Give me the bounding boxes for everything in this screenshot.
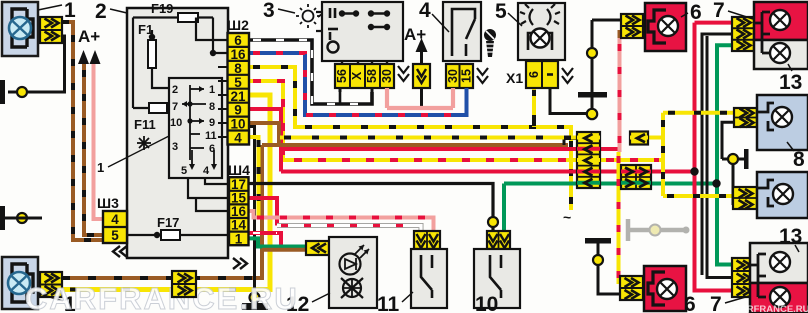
svg-text:Ш3: Ш3 xyxy=(97,195,119,211)
svg-text:15: 15 xyxy=(460,69,474,83)
svg-text:7: 7 xyxy=(713,0,725,22)
svg-text:A+: A+ xyxy=(404,25,426,44)
svg-text:CARFRANCE.RU: CARFRANCE.RU xyxy=(25,281,299,313)
svg-text:13: 13 xyxy=(779,225,802,248)
svg-text:56: 56 xyxy=(335,69,349,83)
svg-text:10: 10 xyxy=(230,117,245,132)
svg-text:4: 4 xyxy=(111,212,119,227)
svg-text:X1: X1 xyxy=(506,70,523,86)
svg-text:6: 6 xyxy=(234,33,242,48)
svg-text:6: 6 xyxy=(209,143,215,155)
svg-text:5: 5 xyxy=(111,228,119,243)
svg-text:5: 5 xyxy=(181,165,187,177)
svg-text:8: 8 xyxy=(234,61,242,76)
svg-text:1: 1 xyxy=(64,0,76,22)
svg-text:1: 1 xyxy=(209,84,215,96)
svg-text:8: 8 xyxy=(209,101,215,113)
svg-text:X: X xyxy=(350,71,364,80)
svg-text:2: 2 xyxy=(172,84,178,96)
svg-text:F17: F17 xyxy=(157,215,179,230)
svg-text:10: 10 xyxy=(170,117,182,129)
svg-text:Ш2: Ш2 xyxy=(227,17,249,33)
svg-text:14: 14 xyxy=(231,218,247,233)
svg-text:9: 9 xyxy=(209,117,215,129)
svg-text:F19: F19 xyxy=(151,1,173,16)
svg-text:CARFRANCE.RU: CARFRANCE.RU xyxy=(733,304,808,313)
svg-text:4: 4 xyxy=(419,0,431,22)
svg-text:3: 3 xyxy=(263,0,275,22)
svg-text:F1: F1 xyxy=(138,22,153,37)
svg-text:5: 5 xyxy=(234,75,242,90)
svg-text:30: 30 xyxy=(446,69,460,83)
svg-text:10: 10 xyxy=(475,293,498,313)
svg-text:~: ~ xyxy=(563,209,571,225)
svg-text:16: 16 xyxy=(230,47,246,62)
svg-text:7: 7 xyxy=(710,293,722,313)
svg-text:8: 8 xyxy=(793,148,805,171)
svg-text:11: 11 xyxy=(205,130,217,142)
svg-text:30: 30 xyxy=(380,69,394,83)
svg-text:11: 11 xyxy=(377,293,400,313)
svg-text:58: 58 xyxy=(365,69,379,83)
svg-text:9: 9 xyxy=(234,103,242,118)
svg-text:1: 1 xyxy=(235,232,243,247)
svg-text:Ш4: Ш4 xyxy=(228,162,250,178)
svg-text:5: 5 xyxy=(495,0,507,23)
svg-text:2: 2 xyxy=(95,0,107,23)
svg-text:4: 4 xyxy=(234,131,242,146)
svg-text:3: 3 xyxy=(172,141,178,153)
svg-text:7: 7 xyxy=(172,101,178,113)
svg-text:4: 4 xyxy=(203,165,210,177)
svg-text:6: 6 xyxy=(527,71,541,78)
svg-text:13: 13 xyxy=(779,71,802,94)
svg-text:A+: A+ xyxy=(78,27,100,46)
svg-text:1: 1 xyxy=(97,160,104,175)
svg-text:F11: F11 xyxy=(134,117,156,132)
svg-text:6: 6 xyxy=(690,1,702,24)
